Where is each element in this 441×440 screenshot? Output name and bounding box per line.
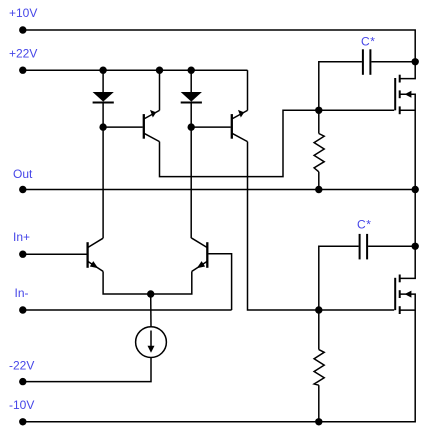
resistor R2	[314, 310, 324, 422]
wire tail node to current source	[150, 294, 152, 327]
current source I1	[136, 327, 167, 358]
node Out / R1 bottom	[315, 186, 322, 193]
node diode D2 cathode / Q2 base	[188, 123, 195, 130]
transistor Q3 (NPN)	[88, 238, 104, 271]
wire Out line	[23, 189, 415, 191]
wire Q4 base to In- line	[208, 254, 231, 310]
svg-text:-22V: -22V	[9, 358, 34, 372]
wire Q2 emitter to +22V rail corner	[247, 70, 249, 110]
wire In+ to Q3 base	[23, 253, 87, 255]
node rail junction A (diode D1 top)	[99, 67, 106, 74]
svg-text:C*: C*	[357, 218, 372, 232]
node Out / M1 drain column	[412, 186, 419, 193]
node In+ port	[19, 251, 26, 258]
wire current source to -22V	[23, 358, 151, 382]
transistor Q2 (PNP)	[232, 110, 248, 142]
svg-text:Out: Out	[13, 167, 33, 181]
wire -10V bottom rail	[23, 421, 319, 423]
svg-text:+22V: +22V	[9, 46, 37, 60]
svg-text:In+: In+	[13, 230, 30, 244]
wire capacitor C2 right plate to right column	[368, 245, 415, 247]
node In- port	[19, 306, 26, 313]
wire capacitor C1 left plate to node D	[319, 62, 362, 111]
wire M1 drain down to Out line	[414, 110, 416, 189]
wire capacitor C1 right plate to +10V column	[371, 61, 415, 63]
wire M2 drain down to bottom rail	[319, 310, 415, 422]
diode D2	[181, 70, 202, 127]
node -10V port	[19, 418, 26, 425]
node +22V port	[19, 67, 26, 74]
node tail junction	[147, 290, 154, 297]
wire +22V rail	[23, 69, 248, 71]
svg-text:C*: C*	[361, 34, 376, 48]
wire Q2 collector down to gate node row	[248, 142, 319, 310]
svg-text:+10V: +10V	[9, 6, 37, 20]
svg-text:-10V: -10V	[9, 398, 34, 412]
svg-text:In-: In-	[15, 286, 29, 300]
wire Q3 emitter to tail node	[103, 271, 151, 294]
wire In- line	[23, 309, 232, 311]
MOSFET M1	[395, 75, 415, 115]
wire Out node down to C2 row	[414, 190, 416, 247]
wire right column down to MOSFET M2 source	[400, 246, 416, 278]
node rail junction B (Q1 emitter)	[156, 67, 163, 74]
node Out port	[19, 186, 26, 193]
node R2 bottom / bottom rail	[315, 418, 322, 425]
wire Q1 emitter to +22V rail	[159, 70, 161, 110]
MOSFET M2	[395, 275, 415, 315]
capacitor C1 (C*)	[363, 49, 371, 75]
wire capacitor C2 left plate to node E	[319, 246, 359, 310]
transistor Q1 (PNP)	[144, 110, 160, 142]
node diode D1 cathode / Q1 base	[99, 123, 106, 130]
wire Q1 collector run to node D	[160, 110, 319, 176]
node +10V port	[19, 26, 26, 33]
wire +10V rail to MOSFET M1 source	[23, 30, 415, 79]
node E (M2 gate / R2 top)	[315, 306, 322, 313]
wire Q1 base	[103, 126, 143, 128]
node C2 right junction	[412, 243, 419, 250]
wire Q4 collector up to D2 column	[190, 237, 193, 239]
wire M1 gate lead	[319, 109, 394, 111]
node rail junction C (diode D2 top)	[188, 67, 195, 74]
wire Q2 base	[191, 126, 231, 128]
wire Q4 emitter to tail node	[151, 271, 192, 294]
resistor R1	[314, 110, 324, 189]
node C1 right / +10V column	[412, 58, 419, 65]
capacitor C2 (C*)	[360, 234, 368, 260]
diode D1	[93, 70, 114, 127]
wire M2 gate lead	[319, 309, 394, 311]
node -22V port	[19, 378, 26, 385]
wire D2 cathode down to Q4 collector	[190, 127, 192, 238]
transistor Q4 (NPN, mirrored)	[192, 238, 208, 271]
wire D1 cathode down to Q3 collector	[102, 127, 104, 238]
node D (R1 top / M1 gate)	[315, 107, 322, 114]
